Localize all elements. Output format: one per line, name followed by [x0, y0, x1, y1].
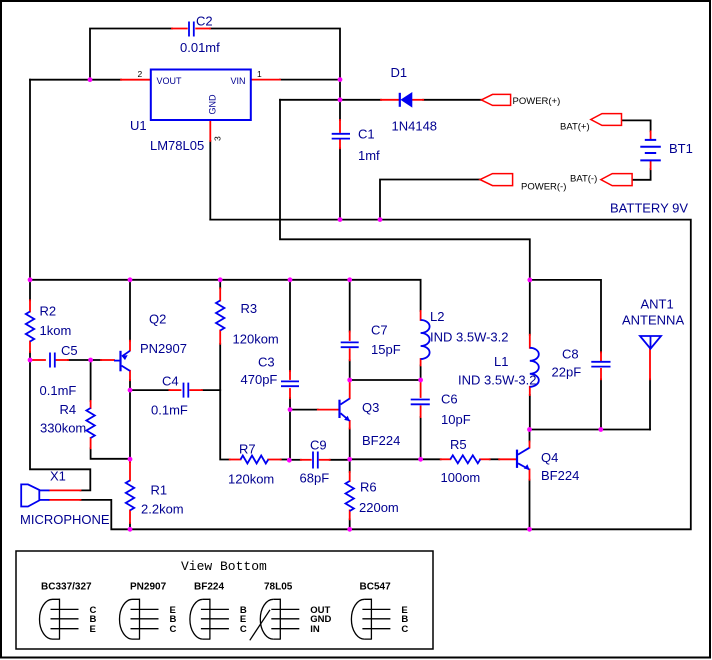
svg-text:U1: U1 — [130, 118, 147, 133]
svg-text:C6: C6 — [441, 392, 458, 407]
svg-text:GND: GND — [208, 94, 218, 115]
svg-text:X1: X1 — [50, 469, 66, 484]
svg-text:C9: C9 — [310, 438, 327, 453]
svg-text:0.1mF: 0.1mF — [151, 403, 188, 418]
svg-text:2: 2 — [138, 69, 143, 79]
svg-text:IND 3.5W-3.2: IND 3.5W-3.2 — [458, 373, 537, 388]
svg-text:BF224: BF224 — [194, 582, 224, 593]
svg-text:BC337/327: BC337/327 — [41, 582, 92, 593]
svg-text:68pF: 68pF — [300, 471, 330, 486]
svg-text:1kom: 1kom — [40, 323, 72, 338]
svg-text:POWER(+): POWER(+) — [513, 96, 561, 107]
svg-text:0.1mF: 0.1mF — [40, 383, 77, 398]
svg-text:3: 3 — [213, 136, 223, 141]
svg-text:R2: R2 — [40, 304, 57, 319]
svg-text:10pF: 10pF — [441, 412, 471, 427]
svg-text:C3: C3 — [258, 355, 275, 370]
svg-text:R7: R7 — [239, 442, 256, 457]
svg-text:C7: C7 — [371, 323, 388, 338]
svg-text:1N4148: 1N4148 — [392, 119, 438, 134]
svg-text:C4: C4 — [162, 374, 179, 389]
svg-text:1mf: 1mf — [358, 148, 380, 163]
svg-text:Q3: Q3 — [362, 400, 379, 415]
svg-text:R4: R4 — [60, 402, 77, 417]
svg-text:330kom: 330kom — [40, 421, 86, 436]
svg-text:BAT(-): BAT(-) — [570, 174, 597, 185]
svg-text:C5: C5 — [61, 343, 78, 358]
svg-text:78L05: 78L05 — [264, 582, 293, 593]
svg-text:IND 3.5W-3.2: IND 3.5W-3.2 — [430, 330, 509, 345]
svg-text:C2: C2 — [196, 14, 213, 29]
svg-text:Q4: Q4 — [541, 450, 558, 465]
svg-text:ANTENNA: ANTENNA — [622, 313, 684, 328]
svg-text:120kom: 120kom — [233, 332, 279, 347]
svg-text:BT1: BT1 — [669, 141, 693, 156]
svg-text:BC547: BC547 — [360, 582, 392, 593]
svg-text:Q2: Q2 — [149, 312, 166, 327]
svg-text:R5: R5 — [450, 437, 467, 452]
svg-text:ANT1: ANT1 — [641, 297, 674, 312]
svg-text:22pF: 22pF — [552, 365, 582, 380]
svg-text:C: C — [170, 624, 177, 635]
svg-text:0.01mf: 0.01mf — [180, 40, 220, 55]
svg-text:R6: R6 — [360, 480, 377, 495]
svg-text:VIN: VIN — [231, 76, 246, 86]
svg-text:LM78L05: LM78L05 — [150, 138, 204, 153]
svg-text:R1: R1 — [151, 483, 168, 498]
svg-text:PN2907: PN2907 — [140, 341, 187, 356]
svg-text:L2: L2 — [430, 309, 444, 324]
svg-text:100om: 100om — [441, 470, 481, 485]
svg-text:View Bottom: View Bottom — [181, 559, 267, 574]
svg-text:BAT(+): BAT(+) — [560, 122, 590, 133]
svg-text:120kom: 120kom — [228, 472, 274, 487]
svg-text:VOUT: VOUT — [157, 76, 183, 86]
svg-text:15pF: 15pF — [371, 342, 401, 357]
svg-text:BATTERY 9V: BATTERY 9V — [610, 201, 688, 216]
svg-text:C: C — [240, 624, 247, 635]
svg-text:220om: 220om — [359, 500, 399, 515]
svg-text:POWER(-): POWER(-) — [521, 182, 566, 193]
svg-text:L1: L1 — [494, 354, 508, 369]
svg-text:BF224: BF224 — [541, 468, 579, 483]
svg-text:PN2907: PN2907 — [130, 582, 167, 593]
svg-text:BF224: BF224 — [362, 433, 400, 448]
svg-text:R3: R3 — [241, 301, 258, 316]
svg-text:1: 1 — [257, 69, 262, 79]
svg-text:C8: C8 — [562, 347, 579, 362]
svg-text:C: C — [401, 624, 408, 635]
svg-text:MICROPHONE: MICROPHONE — [20, 512, 110, 527]
svg-text:470pF: 470pF — [241, 372, 278, 387]
svg-text:C1: C1 — [358, 127, 375, 142]
svg-text:IN: IN — [310, 624, 320, 635]
svg-text:D1: D1 — [391, 65, 408, 80]
svg-text:2.2kom: 2.2kom — [141, 502, 184, 517]
svg-text:E: E — [90, 624, 96, 635]
